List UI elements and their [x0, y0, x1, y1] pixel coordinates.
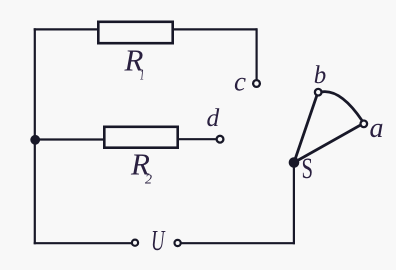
svg-text:c: c: [234, 67, 246, 97]
terminal U right: [175, 240, 181, 246]
wire bottom-left: [34, 242, 132, 244]
contact a: [361, 121, 368, 128]
svg-text:U: U: [151, 226, 166, 257]
contact b: [315, 89, 322, 96]
svg-text:2: 2: [145, 173, 152, 188]
resistor R2: [104, 127, 177, 148]
wire top-left horizontal: [34, 28, 98, 30]
terminal d: [217, 136, 224, 143]
wire R2 to d: [178, 138, 216, 140]
resistor R1: [98, 22, 172, 43]
wire to terminal c: [256, 28, 258, 79]
switch arm S to b: [294, 95, 317, 163]
svg-text:a: a: [370, 113, 384, 144]
wire top-right horizontal: [173, 28, 257, 30]
svg-text:d: d: [207, 103, 220, 132]
terminal c: [253, 80, 260, 87]
wire middle to R2: [34, 138, 104, 140]
svg-text:b: b: [314, 62, 327, 89]
switch pivot S: [289, 157, 300, 168]
switch throw arc b to a: [322, 92, 362, 121]
junction node: [30, 135, 40, 145]
svg-text:1: 1: [140, 67, 145, 83]
wire left vertical: [34, 28, 36, 244]
switch blade S to a: [294, 125, 362, 163]
wire right vertical to switch: [293, 163, 295, 244]
terminal U left: [132, 240, 138, 246]
svg-text:S: S: [302, 152, 314, 185]
wire bottom-right: [181, 242, 295, 244]
